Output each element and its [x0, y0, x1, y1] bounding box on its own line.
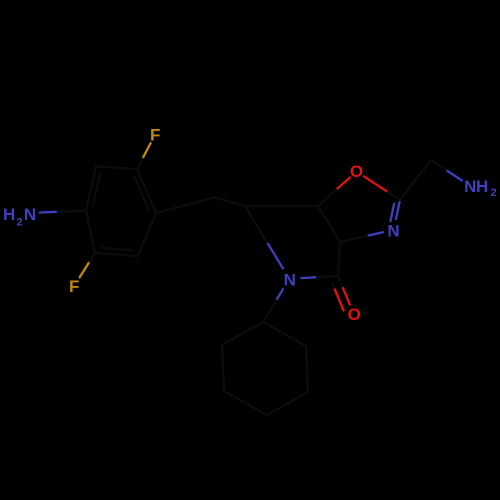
svg-text:2: 2	[16, 216, 22, 228]
svg-text:O: O	[348, 305, 361, 324]
svg-text:2: 2	[490, 187, 496, 199]
svg-text:F: F	[69, 277, 79, 296]
svg-text:H: H	[476, 177, 488, 196]
svg-text:H: H	[3, 205, 15, 224]
svg-text:N: N	[24, 205, 36, 224]
svg-text:N: N	[284, 271, 296, 290]
svg-text:N: N	[464, 177, 476, 196]
svg-text:F: F	[150, 126, 160, 145]
svg-text:O: O	[350, 162, 363, 181]
svg-text:N: N	[387, 222, 399, 241]
